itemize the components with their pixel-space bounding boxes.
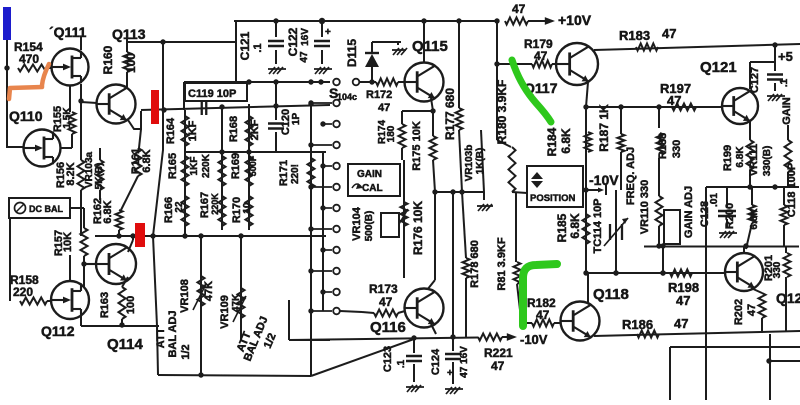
svg-text:VR104: VR104	[351, 206, 363, 241]
svg-text:DC BAL: DC BAL	[29, 204, 63, 214]
svg-text:47: 47	[379, 295, 393, 309]
svg-text:Q118: Q118	[593, 286, 629, 303]
svg-text:Q112: Q112	[41, 323, 75, 339]
svg-text:.1: .1	[396, 359, 407, 368]
svg-text:Q116: Q116	[370, 319, 406, 336]
svg-text:+: +	[325, 27, 331, 38]
svg-text:Q114: Q114	[107, 336, 144, 353]
svg-text:Q113: Q113	[112, 26, 146, 42]
svg-text:R178 680: R178 680	[469, 240, 481, 288]
svg-text:500(B): 500(B)	[364, 211, 375, 242]
svg-text:470: 470	[19, 52, 39, 66]
svg-text:6.8K: 6.8K	[102, 200, 114, 223]
svg-text:104c: 104c	[337, 92, 357, 102]
svg-text:8.2K: 8.2K	[65, 162, 77, 185]
svg-text:+: +	[447, 368, 453, 379]
svg-text:47: 47	[512, 2, 526, 16]
svg-text:C123: C123	[382, 346, 394, 372]
svg-text:VR109: VR109	[219, 295, 231, 329]
svg-text:5K(B): 5K(B)	[94, 163, 105, 190]
svg-text:10K: 10K	[62, 232, 74, 252]
svg-text:47 16V: 47 16V	[459, 346, 470, 378]
svg-text:C118 100P: C118 100P	[786, 163, 798, 217]
svg-text:.1: .1	[779, 78, 790, 87]
svg-text:C124: C124	[430, 348, 442, 375]
svg-text:C121: C121	[238, 31, 252, 60]
svg-text:1/2: 1/2	[180, 344, 192, 359]
svg-text:TC114 10P: TC114 10P	[592, 198, 604, 253]
svg-text:47: 47	[299, 51, 310, 63]
svg-text:47K: 47K	[231, 293, 242, 312]
svg-text:GAIN: GAIN	[357, 169, 382, 180]
svg-text:47: 47	[491, 359, 505, 373]
svg-text:47: 47	[674, 316, 688, 331]
svg-text:6.8K: 6.8K	[568, 213, 582, 239]
svg-text:ATT: ATT	[155, 327, 167, 348]
svg-text:10: 10	[242, 202, 253, 214]
svg-text:6.8K: 6.8K	[749, 208, 760, 230]
svg-text:R183: R183	[619, 28, 650, 43]
svg-text:R200: R200	[724, 203, 736, 229]
svg-text:Q121: Q121	[700, 59, 737, 76]
svg-text:VR103b: VR103b	[464, 145, 475, 182]
svg-text:R163: R163	[99, 292, 111, 318]
svg-text:R199: R199	[722, 145, 734, 171]
svg-text:180: 180	[386, 125, 397, 142]
svg-text:GAIN: GAIN	[781, 97, 793, 125]
svg-text:47: 47	[746, 304, 758, 316]
svg-text:R221: R221	[484, 346, 513, 360]
svg-text:VR111: VR111	[748, 144, 760, 176]
svg-text:47K: 47K	[203, 281, 215, 301]
svg-text:500F: 500F	[248, 155, 258, 176]
svg-text:R184: R184	[545, 127, 559, 156]
svg-text:100: 100	[125, 296, 137, 314]
svg-text:GAIN ADJ: GAIN ADJ	[683, 186, 695, 238]
svg-text:R173: R173	[369, 282, 398, 296]
svg-text:R185: R185	[555, 213, 569, 242]
svg-text:R165: R165	[167, 153, 179, 179]
svg-text:R164: R164	[165, 117, 177, 144]
svg-text:VR108: VR108	[179, 279, 191, 313]
svg-text:R169: R169	[230, 153, 242, 179]
svg-text:R202: R202	[733, 299, 745, 325]
svg-text:BAL ADJ: BAL ADJ	[167, 310, 179, 357]
svg-text:22: 22	[174, 201, 185, 213]
svg-text:R160: R160	[101, 45, 115, 74]
svg-text:VR110 330: VR110 330	[639, 180, 651, 234]
svg-text:R188: R188	[657, 133, 669, 159]
svg-text:47: 47	[536, 308, 550, 322]
svg-text:-10V: -10V	[589, 172, 619, 188]
svg-text:47: 47	[662, 26, 676, 41]
svg-text:R81 3.9KF: R81 3.9KF	[496, 237, 508, 290]
svg-text:-10V: -10V	[520, 332, 548, 347]
svg-text:1KF: 1KF	[189, 157, 200, 176]
svg-text:C127: C127	[749, 67, 761, 93]
svg-text:16V: 16V	[300, 28, 311, 46]
svg-text:1P: 1P	[291, 113, 302, 126]
svg-text:220!: 220!	[290, 164, 301, 184]
svg-text:47: 47	[667, 93, 681, 108]
svg-text:330(B): 330(B)	[762, 146, 773, 177]
svg-text:+10V: +10V	[558, 12, 592, 28]
svg-text:47: 47	[676, 293, 690, 308]
svg-text:+5: +5	[778, 49, 793, 64]
svg-text:1K(B): 1K(B)	[475, 148, 486, 175]
svg-text:D115: D115	[345, 39, 359, 67]
svg-text:C122: C122	[286, 27, 300, 56]
svg-text:1KF: 1KF	[187, 120, 199, 141]
svg-text:R175 10K: R175 10K	[411, 121, 423, 171]
svg-text:47: 47	[378, 102, 390, 114]
svg-text:Q12: Q12	[776, 290, 800, 306]
svg-text:R171: R171	[278, 160, 290, 186]
svg-text:FREQ. ADJ: FREQ. ADJ	[625, 147, 637, 205]
svg-text:Q110: Q110	[9, 108, 43, 124]
svg-text:330: 330	[671, 140, 683, 158]
svg-text:R180 3.9KF: R180 3.9KF	[495, 80, 509, 145]
svg-text:Q115: Q115	[412, 38, 448, 55]
svg-text:220K: 220K	[201, 153, 212, 178]
svg-text:C119 10P: C119 10P	[188, 88, 236, 100]
svg-text:R186: R186	[622, 317, 653, 332]
svg-text:1.5K: 1.5K	[62, 107, 73, 129]
svg-text:POSITION: POSITION	[530, 193, 576, 204]
svg-text:R176 10K: R176 10K	[411, 201, 425, 255]
svg-text:6.8K: 6.8K	[141, 149, 153, 172]
svg-text:CAL: CAL	[362, 183, 383, 194]
svg-text:220: 220	[13, 285, 33, 299]
svg-text:R172: R172	[366, 89, 392, 101]
svg-text:6.8K: 6.8K	[559, 128, 573, 154]
svg-text:R168: R168	[228, 116, 240, 142]
svg-text:6.8K: 6.8K	[735, 146, 746, 168]
svg-text:2KF: 2KF	[249, 119, 261, 140]
svg-text:100: 100	[124, 53, 138, 73]
svg-text:220K: 220K	[210, 193, 220, 215]
svg-text:.1: .1	[252, 43, 264, 52]
svg-text:R187 1K: R187 1K	[597, 104, 611, 152]
svg-text:.01: .01	[709, 193, 720, 207]
svg-text:330: 330	[772, 261, 783, 278]
svg-text:R177 680: R177 680	[443, 88, 457, 140]
